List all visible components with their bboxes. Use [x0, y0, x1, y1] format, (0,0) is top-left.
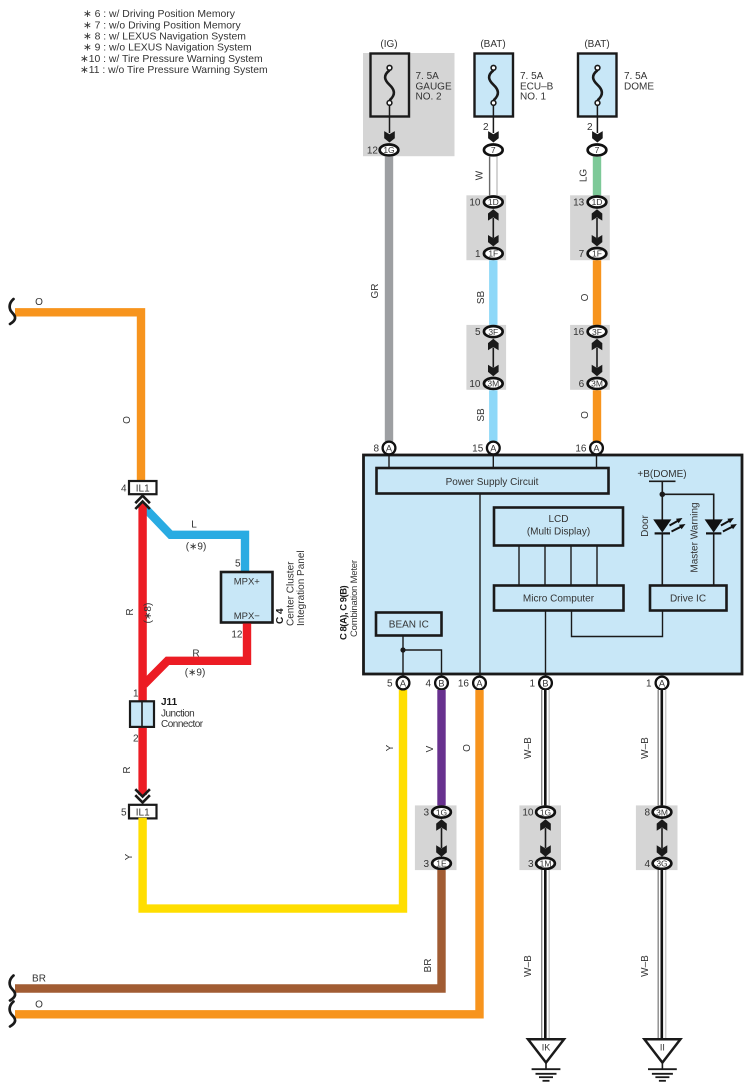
svg-text:O: O	[580, 411, 591, 419]
junction arrows 3M-3G	[657, 819, 668, 830]
svg-text:3: 3	[423, 859, 429, 870]
connector oval 7 (col2)	[484, 145, 503, 156]
svg-text:L: L	[191, 520, 197, 531]
svg-text:W: W	[475, 170, 486, 180]
svg-text:10: 10	[522, 808, 534, 819]
svg-text:O: O	[580, 293, 591, 301]
svg-text:5: 5	[235, 559, 241, 570]
svg-text:(BAT): (BAT)	[584, 39, 609, 50]
svg-text:1F: 1F	[592, 249, 602, 259]
svg-text:7: 7	[595, 145, 600, 155]
svg-text:Door: Door	[640, 514, 651, 536]
svg-text:16: 16	[573, 327, 585, 338]
svg-text:1E: 1E	[436, 859, 447, 869]
LED door	[640, 514, 686, 585]
svg-text:R: R	[125, 608, 136, 615]
wire BR brown 1E to left edge	[15, 870, 442, 989]
junction arrows 1D-1F	[488, 209, 499, 220]
wire O orange col3 upper	[593, 260, 601, 325]
svg-text:Combination Meter: Combination Meter	[349, 560, 360, 637]
wire micro computer to pin 1(B)	[545, 611, 547, 677]
LCD box	[494, 508, 623, 546]
svg-text:∗11 : w/o Tire Pressure Warnin: ∗11 : w/o Tire Pressure Warning System	[80, 65, 268, 76]
svg-text:Micro Computer: Micro Computer	[523, 594, 595, 605]
svg-text:2: 2	[587, 122, 593, 133]
svg-text:(IG): (IG)	[380, 39, 397, 50]
svg-text:BR: BR	[32, 974, 46, 985]
svg-text:12: 12	[367, 146, 379, 157]
svg-text:∗ 7 : w/o Driving Position Mem: ∗ 7 : w/o Driving Position Memory	[83, 20, 241, 31]
gray block connectors 3M/3G	[636, 805, 678, 870]
wire micro computer to drive IC	[572, 611, 663, 637]
svg-text:2: 2	[483, 122, 489, 133]
svg-text:3M: 3M	[656, 807, 668, 817]
svg-text:15: 15	[472, 444, 484, 455]
gray block connectors 3F/3M col2	[466, 325, 506, 390]
gray block connectors 1D/1F col3	[570, 195, 610, 260]
arrow into 7	[488, 131, 499, 142]
gray block connectors 1G/1E	[415, 805, 457, 870]
svg-text:MPX+: MPX+	[234, 577, 261, 588]
ground II	[644, 1039, 680, 1081]
svg-text:8: 8	[373, 444, 379, 455]
gray block connectors 3F/3M col3	[570, 325, 610, 390]
svg-text:(∗9): (∗9)	[185, 668, 206, 679]
svg-text:1M: 1M	[540, 859, 552, 869]
svg-text:1D: 1D	[592, 197, 603, 207]
wire L blue branch to C4	[144, 507, 245, 572]
wire break squiggle (orange bottom)	[10, 1002, 15, 1027]
svg-text:3F: 3F	[592, 327, 602, 337]
wire W-B 3G to ground II	[640, 870, 667, 1039]
svg-text:(∗9): (∗9)	[186, 542, 207, 553]
gray block connectors 1D/1F col2	[466, 195, 506, 260]
svg-text:BEAN IC: BEAN IC	[389, 620, 429, 631]
svg-text:16: 16	[458, 679, 470, 690]
chevron arrows up into IL1	[135, 496, 150, 504]
wire SB col2 lower	[489, 390, 497, 441]
wire O orange col3 lower	[593, 390, 601, 441]
svg-text:5: 5	[475, 327, 481, 338]
svg-text:4: 4	[644, 859, 650, 870]
svg-text:5: 5	[121, 807, 127, 818]
wire R red from C4 pin 12	[144, 624, 247, 685]
svg-text:IK: IK	[542, 1043, 551, 1053]
svg-text:DOME: DOME	[624, 81, 654, 92]
svg-text:3F: 3F	[488, 327, 498, 337]
svg-text:A: A	[490, 443, 497, 453]
svg-text:NO. 1: NO. 1	[520, 91, 547, 102]
svg-text:Power Supply Circuit: Power Supply Circuit	[446, 477, 539, 488]
gray highlight block behind GAUGE fuse	[363, 53, 455, 156]
pin stub 16A top to PSC	[596, 455, 598, 468]
power supply circuit box	[377, 468, 609, 494]
svg-text:2: 2	[133, 734, 139, 745]
fuse F1 GAUGE NO.2 (IG)	[371, 39, 452, 117]
svg-text:B: B	[438, 678, 444, 688]
svg-text:Y: Y	[124, 853, 135, 860]
wire SB col2 upper	[489, 260, 497, 325]
wire fuse F1 to connector 1G	[389, 105, 391, 134]
svg-text:1: 1	[529, 679, 535, 690]
arrow into 7 (col3)	[592, 131, 603, 142]
svg-text:1: 1	[475, 249, 481, 260]
svg-text:∗ 6 : w/ Driving Position Memo: ∗ 6 : w/ Driving Position Memory	[83, 9, 236, 20]
svg-text:10: 10	[469, 379, 481, 390]
svg-text:SB: SB	[476, 291, 487, 305]
svg-text:A: A	[476, 678, 483, 688]
svg-text:1G: 1G	[436, 807, 447, 817]
svg-text:3: 3	[528, 859, 534, 870]
junction arrows 3F-3M	[488, 339, 499, 350]
svg-text:W–B: W–B	[640, 737, 651, 759]
svg-text:16: 16	[575, 444, 587, 455]
svg-text:R: R	[192, 649, 199, 660]
svg-text:NO. 2: NO. 2	[416, 91, 443, 102]
junction arrows 1G-1M	[540, 819, 551, 830]
svg-text:3M: 3M	[591, 379, 603, 389]
svg-text:O: O	[122, 416, 133, 424]
svg-text:LCD: LCD	[548, 514, 568, 525]
svg-text:W–B: W–B	[523, 737, 534, 759]
wire BEAN IC to pin 5(A)	[402, 636, 404, 677]
wire O orange pin 16(A) to left edge	[15, 690, 480, 1014]
svg-text:∗ 9 : w/o LEXUS Navigation Sys: ∗ 9 : w/o LEXUS Navigation System	[83, 43, 252, 54]
svg-text:SB: SB	[476, 408, 487, 422]
svg-text:LG: LG	[579, 169, 590, 183]
svg-text:O: O	[35, 297, 43, 308]
wire Y yellow IL1 to meter 5(A)	[143, 690, 403, 909]
svg-text:(∗8): (∗8)	[143, 603, 154, 624]
svg-text:∗ 8 : w/ LEXUS Navigation Syst: ∗ 8 : w/ LEXUS Navigation System	[83, 32, 246, 43]
connector oval 7 (col3)	[588, 145, 607, 156]
svg-text:V: V	[425, 745, 436, 752]
svg-text:IL1: IL1	[136, 808, 150, 819]
svg-text:4: 4	[425, 679, 431, 690]
svg-text:A: A	[659, 678, 666, 688]
svg-text:W–B: W–B	[640, 955, 651, 977]
wire R red J11 to IL1	[138, 728, 146, 795]
fuse F3 DOME (BAT)	[578, 39, 654, 117]
svg-text:C 8(A), C 9(B): C 8(A), C 9(B)	[339, 585, 350, 640]
arrow into 1G	[384, 131, 395, 142]
wire LG green col3	[593, 157, 601, 196]
combination meter box C8(A) C9(B)	[364, 455, 743, 674]
svg-text:6: 6	[579, 379, 585, 390]
svg-text:C 4: C 4	[275, 608, 286, 624]
wire W-B pin 1(B) upper	[523, 690, 550, 806]
junction arrows 1G-1E	[436, 819, 447, 830]
svg-text:Center Cluster: Center Cluster	[286, 561, 297, 626]
BEAN IC box	[376, 613, 442, 636]
svg-text:B: B	[542, 678, 548, 688]
svg-text:+B(DOME): +B(DOME)	[637, 469, 686, 480]
svg-text:Y: Y	[385, 744, 396, 751]
svg-text:5: 5	[387, 679, 393, 690]
svg-text:∗10 : w/ Tire Pressure Warning: ∗10 : w/ Tire Pressure Warning System	[80, 54, 263, 65]
svg-text:8: 8	[644, 808, 650, 819]
LED master warning	[690, 502, 737, 585]
junction arrows 3F-3M col3	[592, 339, 603, 350]
chevron arrows down into IL1 (bottom)	[135, 789, 150, 796]
svg-text:3G: 3G	[656, 859, 667, 869]
svg-text:A: A	[400, 678, 407, 688]
svg-text:(Multi Display): (Multi Display)	[527, 527, 590, 538]
wire GR gray	[385, 157, 393, 442]
svg-text:12: 12	[231, 630, 243, 641]
wire V violet pin 4(B) to 1G	[437, 690, 445, 806]
svg-text:(BAT): (BAT)	[480, 39, 505, 50]
pin stub 8A to PSC	[388, 455, 390, 468]
gray block connectors 1G/1M	[519, 805, 561, 870]
svg-text:1G: 1G	[383, 145, 394, 155]
svg-text:Master Warning: Master Warning	[690, 502, 701, 572]
wire break squiggle (orange top)	[10, 299, 15, 324]
svg-text:BR: BR	[423, 959, 434, 973]
wire W-B pin 1(A) upper	[640, 690, 667, 806]
svg-text:Connector: Connector	[161, 719, 204, 730]
svg-text:4: 4	[121, 484, 127, 495]
svg-text:10: 10	[469, 198, 481, 209]
wire R red main vertical	[138, 504, 146, 702]
svg-text:O: O	[35, 999, 43, 1010]
svg-text:Integration Panel: Integration Panel	[296, 550, 307, 626]
svg-text:Drive IC: Drive IC	[670, 594, 706, 605]
svg-text:J11: J11	[161, 697, 178, 708]
fuse F2 ECU-B NO.1 (BAT)	[475, 39, 554, 117]
svg-text:13: 13	[573, 198, 585, 209]
wire W white col2	[475, 157, 498, 196]
svg-text:3: 3	[423, 808, 429, 819]
svg-text:1: 1	[133, 689, 139, 700]
wire branch to pin 4(B)	[403, 650, 442, 676]
svg-text:7: 7	[491, 145, 496, 155]
wire PSC to bottom pin 16(A)	[479, 494, 481, 677]
svg-text:A: A	[386, 443, 393, 453]
micro computer box	[494, 586, 624, 611]
svg-text:O: O	[462, 744, 473, 752]
svg-text:II: II	[660, 1043, 665, 1053]
svg-text:1: 1	[646, 679, 652, 690]
ground IK	[528, 1039, 564, 1081]
svg-text:W–B: W–B	[523, 955, 534, 977]
svg-text:A: A	[593, 443, 600, 453]
wire W-B 1M to ground IK	[523, 870, 550, 1039]
svg-text:7: 7	[579, 249, 585, 260]
wire break squiggle (brown)	[10, 976, 15, 1001]
wires LCD to micro computer	[518, 546, 520, 586]
wire to master warning LED	[662, 494, 713, 519]
node junction dot	[660, 492, 666, 498]
svg-text:Junction: Junction	[161, 709, 194, 720]
svg-text:MPX−: MPX−	[234, 611, 261, 622]
node junction dot BEAN	[400, 647, 405, 652]
svg-text:1F: 1F	[488, 249, 498, 259]
pin stub 15A to PSC	[492, 455, 494, 468]
legend note text	[80, 9, 268, 76]
svg-text:IL1: IL1	[136, 484, 150, 495]
svg-text:R: R	[122, 766, 133, 773]
wire O orange from left edge to IL1	[15, 312, 141, 481]
svg-text:3M: 3M	[487, 379, 499, 389]
svg-text:1G: 1G	[540, 807, 551, 817]
svg-text:1D: 1D	[488, 197, 499, 207]
svg-text:GR: GR	[370, 284, 381, 299]
junction arrows 1D-1F col3	[592, 209, 603, 220]
drive IC box	[650, 586, 727, 611]
